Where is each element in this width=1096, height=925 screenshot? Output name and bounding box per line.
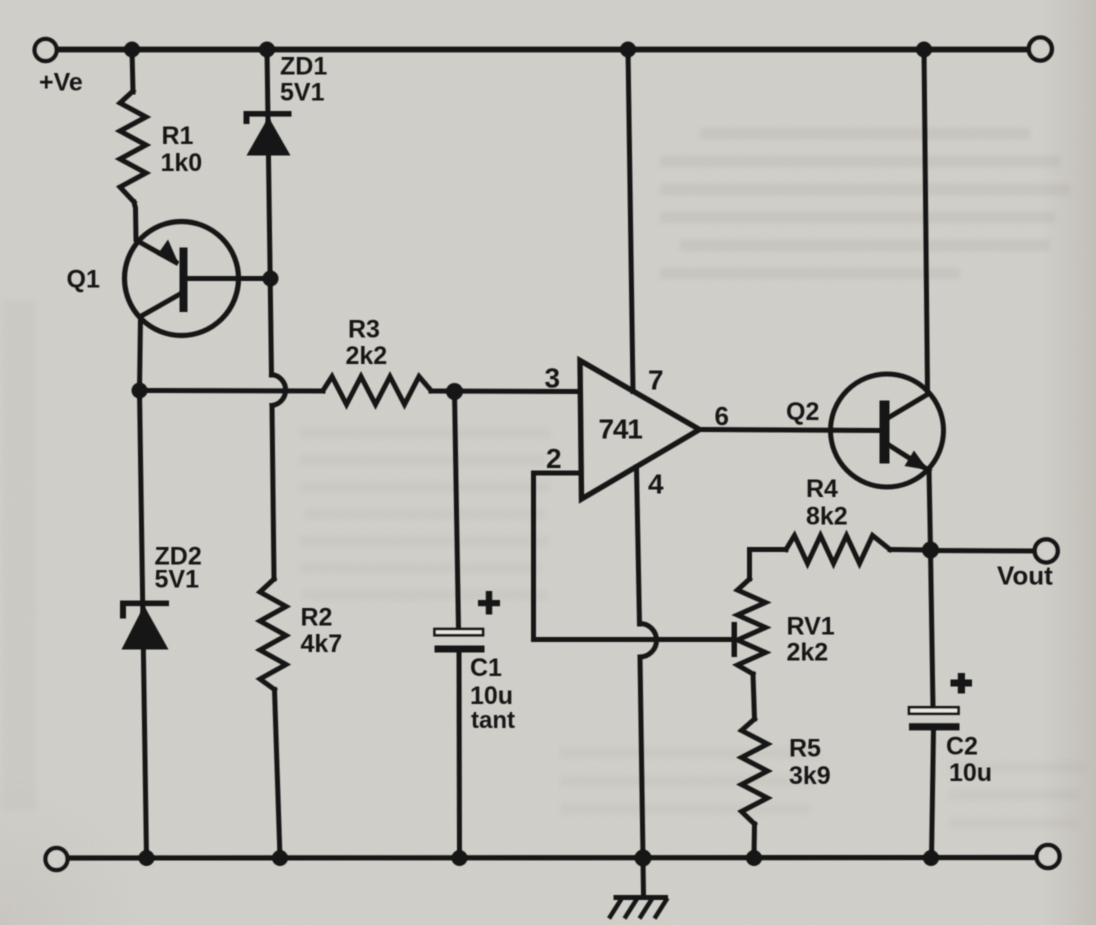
wire Vout lead (931, 548, 1035, 554)
wire node A horizontal (140, 388, 324, 394)
zener ZD2 (120, 601, 169, 650)
resistor R3 (323, 377, 431, 405)
capacitor C1 plus sign (478, 591, 500, 615)
svg-text:741: 741 (599, 414, 643, 445)
transistor Q1 base bar (180, 248, 188, 313)
svg-text:5V1: 5V1 (280, 79, 325, 107)
zener ZD1 (244, 111, 292, 156)
wire Q2 collector lead (890, 394, 930, 418)
wire ZD1 branch upper (267, 50, 272, 376)
junction bottom C1 (452, 850, 468, 866)
wire top rail (56, 47, 1029, 53)
svg-text:R3: R3 (348, 316, 380, 344)
wire R5 bottom (752, 824, 758, 858)
svg-text:4k7: 4k7 (301, 630, 343, 658)
svg-text:6: 6 (715, 401, 729, 431)
svg-text:Q2: Q2 (786, 398, 819, 426)
resistor R4 (786, 536, 890, 564)
svg-text:8k2: 8k2 (806, 503, 848, 531)
wire R1 top feed (132, 50, 133, 93)
wire 741 pin 4 to ground rail (640, 657, 643, 858)
junction R3 right / C1 (446, 383, 463, 400)
ground (609, 895, 668, 919)
svg-text:4: 4 (648, 469, 664, 500)
wire C2 branch lower (932, 729, 934, 858)
wire C1 branch upper (455, 392, 459, 630)
op-amp U1 741 triangle (580, 361, 700, 500)
junction top 741 pin7 (620, 42, 636, 58)
resistor R1 (120, 91, 146, 202)
capacitor C1 plates (435, 629, 485, 653)
junction top ZD1 (259, 42, 275, 58)
wire op-amp output pin 6 (700, 430, 880, 431)
junction R4 Vout (922, 542, 939, 559)
svg-text:RV1: RV1 (787, 613, 835, 641)
wire Q1 base lead (186, 276, 271, 281)
wire Q2 emitter lead (890, 446, 930, 471)
svg-text:tant: tant (471, 707, 515, 734)
svg-text:C1: C1 (470, 654, 502, 682)
junction bottom ZD2 (139, 850, 155, 866)
junction bottom C2 (923, 850, 939, 866)
wire R2 bottom (275, 690, 281, 859)
wire hop over feedback wire (640, 623, 657, 657)
svg-text:5V1: 5V1 (155, 566, 200, 594)
svg-text:Vout: Vout (997, 561, 1053, 591)
svg-text:1k0: 1k0 (161, 149, 203, 177)
wire Q2 collector rail (924, 50, 928, 392)
junction Q1 base / ZD1 (263, 271, 279, 287)
wire feedback horizontal to RV1 wiper (534, 637, 734, 642)
bleed-through text (faint) (2, 128, 1085, 828)
wire R4 right (890, 547, 931, 553)
svg-text:2k2: 2k2 (787, 639, 829, 667)
capacitor C2 plus sign (951, 673, 973, 694)
ground stub (641, 858, 647, 896)
wire Q1 collector lead (140, 294, 182, 391)
junction node A left (132, 383, 148, 399)
svg-text:C2: C2 (946, 733, 978, 761)
potentiometer RV1 (738, 579, 766, 674)
wire R3 to op-amp pin 3 (431, 389, 580, 395)
potentiometer RV1 wiper bar (732, 622, 738, 657)
transistor Q2 emitter arrow (905, 451, 929, 471)
svg-text:3k9: 3k9 (789, 762, 831, 790)
transistor Q2 (831, 374, 944, 487)
terminal Vout (1035, 539, 1058, 562)
wire Q1 emitter lead (134, 202, 176, 263)
svg-text:R1: R1 (162, 122, 194, 150)
svg-text:R2: R2 (301, 604, 333, 632)
junction bottom ground (635, 850, 652, 867)
capacitor C2 plates (909, 707, 960, 730)
svg-text:+Ve: +Ve (39, 69, 83, 97)
transistor Q1 (125, 222, 239, 336)
resistor R2 (260, 579, 286, 690)
junction bottom R2 (272, 850, 288, 866)
svg-text:10u: 10u (949, 759, 992, 787)
wire hop over node A wire (272, 375, 286, 406)
wire 741 pin 7 supply (628, 50, 633, 392)
terminal bottom-left (46, 848, 68, 870)
junction top R1 (124, 42, 140, 58)
wire C1 branch lower (457, 651, 463, 858)
resistor R5 (742, 719, 768, 824)
svg-text:10u: 10u (470, 682, 513, 710)
svg-text:7: 7 (648, 365, 664, 396)
svg-text:R4: R4 (806, 475, 838, 503)
wire left column through ZD2 (140, 391, 147, 859)
terminal top-right (1029, 38, 1052, 61)
wire feedback vertical (531, 473, 536, 640)
terminal +Ve top-left (35, 39, 57, 61)
transistor Q1 emitter arrow (158, 240, 179, 264)
svg-text:Q1: Q1 (67, 266, 100, 294)
wire RV1 to R5 (753, 674, 755, 719)
svg-text:ZD1: ZD1 (280, 53, 327, 81)
svg-text:R5: R5 (789, 735, 821, 763)
svg-text:2k2: 2k2 (346, 342, 388, 370)
transistor Q2 base bar (880, 401, 890, 464)
svg-text:2: 2 (546, 443, 562, 474)
wire C2 branch upper (931, 550, 934, 708)
wire R4 left corner (750, 550, 787, 580)
terminal bottom-right (1037, 845, 1060, 868)
wire op-amp pin 2 stub (534, 471, 581, 476)
wire 741 pin 4 upper (637, 467, 640, 624)
svg-text:3: 3 (545, 363, 561, 394)
wire ZD1 branch to R2 (272, 406, 274, 580)
junction bottom R5 (746, 850, 762, 866)
wire Q2 emitter down (929, 469, 931, 550)
junction top Q2 collector (916, 42, 932, 58)
wire bottom rail (68, 855, 1038, 861)
